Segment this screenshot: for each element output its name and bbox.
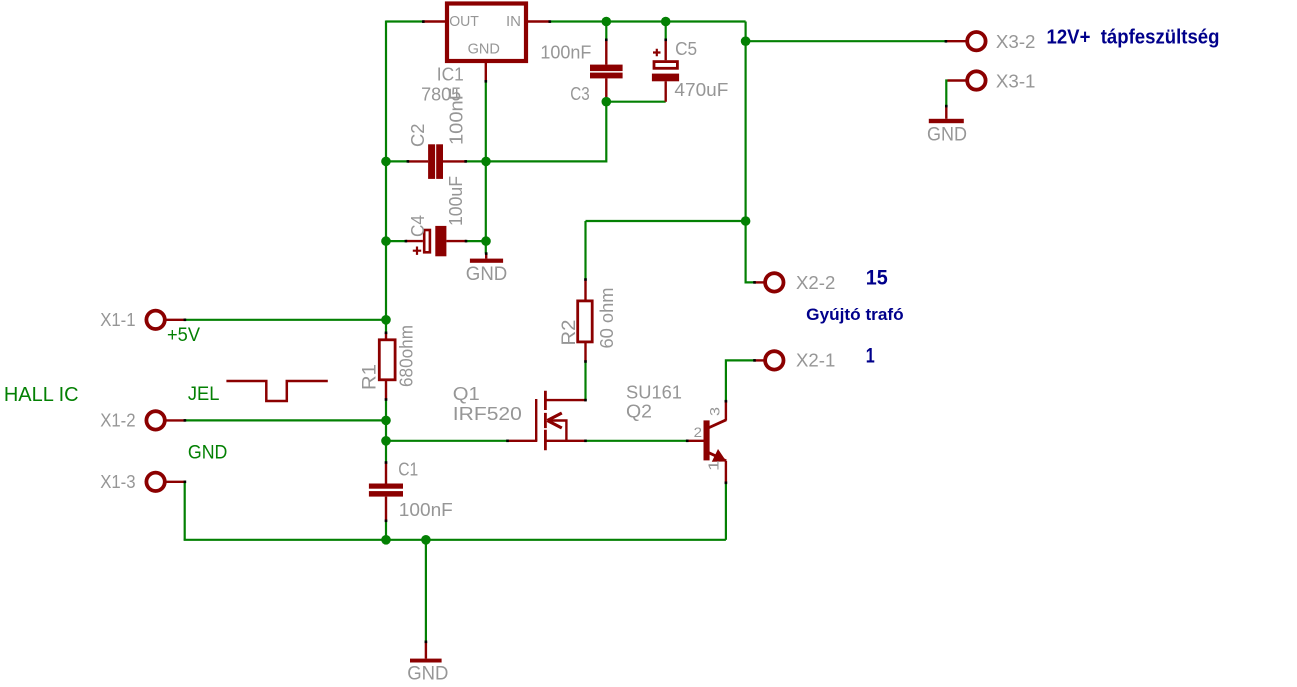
wire Q2 emitter drop xyxy=(725,483,727,540)
IC1 pin name IN xyxy=(506,13,521,30)
svg-text:C4: C4 xyxy=(408,215,428,237)
IC1 7805 regulator body xyxy=(447,4,526,62)
Q1 value label IRF520 xyxy=(453,404,522,424)
Q2 value label SU161 xyxy=(626,383,682,403)
svg-text:IN: IN xyxy=(506,13,521,30)
junction dot right bus / R2 xyxy=(741,216,751,226)
Q2 pin number 1 (rotated) xyxy=(705,460,722,471)
svg-text:100nF: 100nF xyxy=(540,43,591,63)
capacitor C2 plates xyxy=(428,144,443,179)
connector pin X1-1 xyxy=(146,311,184,329)
IC1 name label xyxy=(437,64,464,84)
capacitor C5 electrolytic plus sign xyxy=(653,49,661,56)
junction dot C1 bottom xyxy=(381,535,391,545)
wire OUT net: 7805 OUT to left vertical bus xyxy=(386,20,423,22)
junction dot C2 left xyxy=(381,157,391,167)
svg-text:15: 15 xyxy=(866,266,888,289)
svg-text:GND: GND xyxy=(927,124,967,145)
net label GND (green) xyxy=(188,443,228,464)
svg-text:2: 2 xyxy=(694,424,703,440)
wire right vertical bus x=745.6 down to X2-2 xyxy=(746,22,755,283)
wire C2 left stub xyxy=(386,160,408,162)
wire 7805 IN to top-right corner xyxy=(550,20,746,22)
svg-text:C1: C1 xyxy=(398,459,418,479)
Q2 collector diagonal xyxy=(709,420,726,428)
wire R2 bottom to Q1 drain xyxy=(584,362,586,401)
C2 value label 100nF (rotated) xyxy=(447,88,467,145)
svg-text:HALL IC: HALL IC xyxy=(4,384,79,406)
svg-text:X2-1: X2-1 xyxy=(796,351,835,371)
Q1 name label xyxy=(453,384,480,404)
IC1 IN pin lead xyxy=(528,20,550,22)
capacitor C3 leads xyxy=(605,41,607,102)
C3 name label xyxy=(570,84,589,104)
IC1 GND pin lead xyxy=(485,63,487,81)
junction dot X1-2 xyxy=(381,416,391,426)
wire X1-3 drop xyxy=(184,482,186,540)
R2 leads xyxy=(584,280,586,362)
capacitor C1 plates xyxy=(369,484,403,497)
net label +5V xyxy=(167,325,200,346)
connector pin X1-2 xyxy=(146,411,184,429)
connector pin X2-1 xyxy=(755,351,784,369)
svg-text:Q2: Q2 xyxy=(626,402,652,422)
svg-text:GND: GND xyxy=(466,264,508,285)
svg-text:1: 1 xyxy=(866,345,875,368)
IC1 pin name OUT xyxy=(449,13,479,30)
Q1 bulk connection with arrow xyxy=(547,413,566,441)
Q1 gate bar xyxy=(535,399,537,441)
svg-text:100uF: 100uF xyxy=(446,176,466,226)
svg-text:+5V: +5V xyxy=(167,325,200,346)
svg-text:X2-2: X2-2 xyxy=(796,273,835,293)
junction dot C3/C5 bottom xyxy=(602,97,612,107)
svg-text:X1-3: X1-3 xyxy=(100,472,135,492)
R1 name label (rotated) xyxy=(360,364,381,390)
svg-text:X1-1: X1-1 xyxy=(100,310,135,330)
C1 name label xyxy=(398,459,418,479)
IC1 value label 7805 xyxy=(421,84,461,104)
resistor R2 xyxy=(578,301,593,342)
svg-text:JEL: JEL xyxy=(188,384,220,405)
junction dot right bus / X3-2 xyxy=(741,36,751,46)
svg-text:GND: GND xyxy=(188,443,228,464)
capacitor C4 electrolytic plus sign xyxy=(413,247,421,255)
junction dot gate tap xyxy=(381,436,391,446)
Q2 pin number 2 xyxy=(694,424,703,440)
svg-text:C3: C3 xyxy=(570,84,589,104)
Q2 name label xyxy=(626,402,652,422)
C2 name label (rotated) xyxy=(408,124,428,148)
junction dot X1-1 xyxy=(381,315,391,325)
resistor R1 xyxy=(379,340,395,380)
connector pin X3-2 xyxy=(946,32,986,50)
svg-text:3: 3 xyxy=(707,407,723,416)
svg-text:60 ohm: 60 ohm xyxy=(597,288,617,349)
wire to X3-2 xyxy=(746,40,946,42)
ground symbol at X3-1 xyxy=(929,107,964,124)
svg-text:100nF: 100nF xyxy=(447,88,467,145)
connector pin X2-2 xyxy=(755,273,784,291)
wire GND stem bottom xyxy=(425,540,427,642)
Q1 source lead xyxy=(545,440,586,442)
capacitor C5 solid plate xyxy=(652,74,679,82)
wire vertical between R1 bottom and C1 top xyxy=(385,400,387,463)
C4 name label (rotated) xyxy=(408,215,428,237)
wire X1-2 horizontal (JEL net) xyxy=(185,419,386,421)
capacitor C1 leads xyxy=(385,463,387,521)
X3-1 label xyxy=(996,71,1036,91)
svg-text:Gyújtó trafó: Gyújtó trafó xyxy=(806,305,904,324)
annotation 1 xyxy=(866,345,875,368)
capacitor C4 leads xyxy=(406,240,466,242)
ground label at X3-1 xyxy=(927,124,967,145)
wire 7805 GND vertical x=486 xyxy=(485,81,487,253)
wire C3/C5 bottom link xyxy=(606,101,665,103)
ground label under C4 xyxy=(466,264,508,285)
junction dot C3 top xyxy=(602,17,612,27)
C5 name label xyxy=(675,39,697,59)
X2-1 label xyxy=(796,351,835,371)
svg-text:GND: GND xyxy=(468,40,500,57)
annotation 12V+ tapfeszultseg xyxy=(1047,27,1220,49)
wire C1 bottom to bottom bus xyxy=(385,521,387,540)
JEL signal waveform xyxy=(226,381,327,401)
R1 leads xyxy=(385,333,387,400)
ground symbol bottom xyxy=(410,642,442,663)
C4 value label 100uF (rotated) xyxy=(446,176,466,226)
Q2 emitter diagonal xyxy=(709,453,726,461)
wire C5 top stub xyxy=(665,22,667,41)
junction dot C5 top xyxy=(661,17,671,27)
svg-text:IC1: IC1 xyxy=(437,64,464,84)
svg-text:12V+ tápfeszültség: 12V+ tápfeszültség xyxy=(1047,27,1220,49)
svg-text:680ohm: 680ohm xyxy=(397,325,417,387)
net label HALL IC xyxy=(4,384,79,406)
Q2 collector lead xyxy=(725,401,727,420)
junction dot C4 right xyxy=(481,236,491,246)
capacitor C3 plates xyxy=(590,65,623,79)
transistor Q1 IRF520 gate lead xyxy=(508,440,538,442)
junction dot GND stem xyxy=(421,535,431,545)
ground symbol under C4 xyxy=(470,254,503,263)
wire R2 top vertical xyxy=(584,221,586,280)
wire C4 right stub xyxy=(466,240,486,242)
svg-text:GND: GND xyxy=(407,664,448,685)
svg-text:OUT: OUT xyxy=(449,13,479,30)
R2 value label 60 ohm (rotated) xyxy=(597,288,617,349)
X3-2 label xyxy=(996,32,1036,52)
connector pin X3-1 xyxy=(948,71,986,89)
IC1 pin name GND xyxy=(468,40,500,57)
wire C3 top stub xyxy=(605,22,607,41)
svg-text:IRF520: IRF520 xyxy=(453,404,522,424)
capacitor C2 leads xyxy=(408,160,466,162)
svg-text:R2: R2 xyxy=(559,320,580,346)
Q2 pin number 3 (rotated) xyxy=(707,407,723,416)
X1-3 label xyxy=(100,472,135,492)
C1 value label 100nF xyxy=(399,500,453,520)
Q2 base bar xyxy=(704,420,710,460)
Q1 drain lead xyxy=(545,399,586,401)
connector pin X1-3 xyxy=(146,473,184,491)
svg-text:X3-2: X3-2 xyxy=(996,32,1036,52)
ground label bottom xyxy=(407,664,448,685)
C5 value label 470uF xyxy=(674,80,728,100)
pin end tick marks xyxy=(184,20,948,643)
X2-2 label xyxy=(796,273,835,293)
wire X1-1 horizontal xyxy=(185,319,386,321)
svg-text:SU161: SU161 xyxy=(626,383,682,403)
svg-text:X3-1: X3-1 xyxy=(996,71,1036,91)
svg-text:470uF: 470uF xyxy=(674,80,728,100)
wire left vertical bus (+5V net) x=386 xyxy=(385,21,387,334)
svg-text:C5: C5 xyxy=(675,39,697,59)
capacitor C5 leads xyxy=(665,41,667,102)
wire X3-1 corner to GND xyxy=(946,81,947,107)
annotation Gyujto trafo xyxy=(806,305,904,324)
wire Q1 source to Q2 base xyxy=(586,440,687,442)
Q2 emitter lead xyxy=(725,461,727,483)
wire Q2 collector up and to X2-1 xyxy=(726,360,755,401)
svg-text:X1-2: X1-2 xyxy=(100,410,135,430)
junction dot C4 left xyxy=(381,236,391,246)
X1-2 label xyxy=(100,410,135,430)
X1-1 label xyxy=(100,310,135,330)
svg-text:100nF: 100nF xyxy=(399,500,453,520)
wire gate feed to Q1 xyxy=(386,440,508,442)
R1 value label 680ohm (rotated) xyxy=(397,325,417,387)
capacitor C4 solid plate xyxy=(435,226,446,256)
wire R2 top horizontal to right bus xyxy=(586,220,746,222)
net label JEL xyxy=(188,384,220,405)
IC1 OUT pin lead xyxy=(423,20,445,22)
annotation 15 xyxy=(866,266,888,289)
wire bottom GND bus xyxy=(184,539,726,541)
svg-text:C2: C2 xyxy=(408,124,428,148)
Q1 channel segments xyxy=(544,391,547,450)
R2 name label (rotated) xyxy=(559,320,580,346)
capacitor C4 hollow plate xyxy=(424,230,430,252)
wire C4 left stub xyxy=(386,240,406,242)
junction dot C2 right xyxy=(481,157,491,167)
capacitor C5 hollow plate xyxy=(654,62,677,69)
C3 value label 100nF xyxy=(540,43,591,63)
svg-text:R1: R1 xyxy=(360,364,381,390)
svg-text:1: 1 xyxy=(705,460,722,471)
transistor Q2 SU161 base lead xyxy=(687,440,703,442)
svg-text:Q1: Q1 xyxy=(453,384,480,404)
wire GND link C2 row to C3 bottom xyxy=(466,102,607,162)
Q2 emitter arrowhead xyxy=(712,449,727,462)
